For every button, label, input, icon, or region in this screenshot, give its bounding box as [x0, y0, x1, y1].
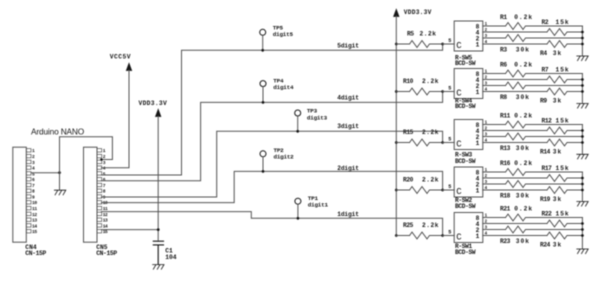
power symbol VDD3.3V (left) [155, 108, 161, 117]
svg-text:15: 15 [32, 229, 37, 235]
svg-text:BCD-SW: BCD-SW [455, 249, 476, 256]
resistor R21 0.2k [483, 214, 583, 221]
svg-text:2.2k: 2.2k [420, 30, 437, 37]
wire GND bus (block 1) [581, 26, 583, 56]
svg-text:30k: 30k [516, 46, 530, 53]
svg-text:30k: 30k [516, 94, 530, 101]
resistor R6 0.2k [483, 70, 583, 77]
output pin numbers (R-SW5) [485, 23, 488, 45]
svg-text:R1: R1 [500, 14, 507, 21]
op-amp-style IC R-SW3 BCD-SW [454, 120, 483, 150]
output pin numbers (R-SW1) [485, 214, 488, 236]
wire GND bus (block 4) [581, 172, 583, 202]
resistor R8 30k [483, 82, 583, 89]
svg-text:1: 1 [476, 233, 480, 240]
svg-text:R10: R10 [403, 78, 414, 85]
svg-text:R7: R7 [542, 66, 549, 73]
junction VDD3.3V / R10 [395, 90, 398, 93]
resistor R10 2.2k [396, 88, 442, 95]
junction GND bus r2 (block 5) [581, 222, 584, 225]
svg-text:1digit: 1digit [337, 211, 359, 218]
svg-text:14: 14 [103, 223, 108, 229]
svg-text:digit1: digit1 [308, 201, 329, 208]
svg-text:R11: R11 [500, 113, 511, 120]
svg-text:R19: R19 [540, 196, 551, 203]
svg-text:3k: 3k [553, 196, 562, 203]
svg-text:BCD-SW: BCD-SW [455, 103, 476, 110]
test point TP5 [260, 29, 266, 50]
output pin numbers (R-SW4) [485, 70, 488, 92]
svg-text:digit4: digit4 [273, 84, 294, 91]
junction GND bus r3 (block 3) [581, 135, 584, 138]
test point TP4 [260, 81, 266, 103]
ground chassis (block 1) [577, 56, 588, 61]
resistor R23 30k [483, 226, 583, 233]
ground chassis (CN4) [54, 190, 65, 195]
junction TP3 on net [296, 130, 299, 133]
svg-text:15k: 15k [556, 117, 570, 124]
resistor R2 15k [483, 29, 583, 36]
svg-text:12: 12 [32, 212, 37, 218]
junction GND bus r2 (block 2) [581, 78, 584, 81]
svg-text:R24: R24 [540, 242, 551, 249]
op-amp-style IC R-SW2 BCD-SW [454, 167, 483, 197]
svg-text:12: 12 [103, 212, 108, 218]
svg-text:1: 1 [476, 140, 480, 147]
junction R25 / digit net / pin 5 [441, 234, 444, 237]
svg-text:VDD3.3V: VDD3.3V [139, 100, 168, 107]
pin value labels 8 4 2 1 (R-SW2) [476, 169, 480, 194]
junction TP4 on net [262, 101, 265, 104]
output pin numbers (R-SW3) [485, 121, 488, 143]
svg-text:BCD-SW: BCD-SW [455, 203, 476, 210]
svg-text:R3: R3 [500, 46, 507, 53]
resistor R25 2.2k [396, 232, 442, 239]
wire to R-SW3 pin 5 [443, 142, 455, 144]
wire to R-SW1 pin 5 [443, 235, 455, 237]
svg-text:R8: R8 [500, 94, 507, 101]
svg-text:C: C [456, 139, 462, 149]
svg-text:0.2k: 0.2k [514, 14, 533, 21]
svg-text:3k: 3k [553, 149, 562, 156]
svg-text:0.2k: 0.2k [514, 62, 533, 69]
resistor R16 0.2k [483, 169, 583, 176]
wire net 2digit (CN5 pin10 to R-SW2) [101, 171, 442, 202]
svg-text:3k: 3k [553, 242, 562, 249]
svg-text:10: 10 [103, 200, 108, 206]
junction TP5 on net [261, 49, 264, 52]
svg-text:5digit: 5digit [337, 43, 359, 50]
pin value labels 8 4 2 1 (R-SW3) [476, 122, 480, 147]
resistor R11 0.2k [483, 121, 583, 128]
junction GND bus r4 (block 2) [581, 90, 584, 93]
wire CN4 pin5 to junction [31, 172, 59, 174]
wire CN5 pin15 to VDD3.3V [101, 229, 158, 231]
svg-text:13: 13 [32, 218, 37, 224]
junction VDD3.3V / R15 [395, 141, 398, 144]
svg-text:15k: 15k [556, 66, 570, 73]
resistor R3 30k [483, 35, 583, 42]
svg-text:30k: 30k [516, 238, 530, 245]
junction R5 / digit net / pin 5 [441, 43, 444, 46]
svg-text:5: 5 [448, 38, 451, 44]
test point TP1 [295, 198, 301, 218]
connector CN5 [84, 147, 109, 242]
ground chassis (C1) [153, 265, 164, 270]
svg-text:digit2: digit2 [274, 153, 295, 160]
svg-text:1: 1 [476, 89, 480, 96]
svg-text:0.2k: 0.2k [514, 160, 533, 167]
svg-text:R6: R6 [500, 62, 507, 69]
junction GND bus r2 (block 4) [581, 177, 584, 180]
resistor R4 3k [483, 41, 583, 48]
svg-text:R20: R20 [403, 176, 414, 183]
svg-text:R13: R13 [500, 145, 511, 152]
wire GND bus (block 3) [581, 125, 583, 155]
svg-text:0.2k: 0.2k [514, 206, 533, 213]
svg-text:30k: 30k [516, 192, 530, 199]
svg-text:11: 11 [32, 206, 37, 212]
wire GND bus (block 2) [581, 74, 583, 104]
op-amp-style IC R-SW5 BCD-SW [454, 21, 483, 51]
svg-text:5: 5 [448, 229, 451, 235]
ground chassis (block 5) [577, 249, 588, 254]
junction GND bus r4 (block 4) [581, 189, 584, 192]
svg-text:R21: R21 [500, 206, 511, 213]
output pin numbers (R-SW2) [485, 169, 488, 191]
svg-text:CN-15P: CN-15P [96, 250, 117, 257]
svg-text:VCC5V: VCC5V [110, 53, 131, 60]
svg-text:15k: 15k [556, 210, 570, 217]
svg-text:R12: R12 [542, 117, 553, 124]
wire VDD3.3V down to C1 [157, 117, 159, 242]
ground chassis (block 4) [577, 202, 588, 207]
junction GND bus r2 (block 3) [581, 129, 584, 132]
power symbol VCC5V [126, 62, 132, 71]
junction GND bus r4 (block 5) [581, 234, 584, 237]
svg-text:digit3: digit3 [307, 115, 328, 122]
test point TP3 [295, 110, 301, 131]
svg-text:5: 5 [448, 184, 451, 190]
junction CN4 pin5 / GND / loop [58, 171, 61, 174]
junction GND bus r2 (block 1) [581, 31, 584, 34]
svg-text:13: 13 [103, 218, 108, 224]
resistor R13 30k [483, 133, 583, 140]
svg-text:1: 1 [476, 41, 480, 48]
junction GND bus r3 (block 1) [581, 37, 584, 40]
wire net 5digit (CN5 pin5 to R-SW5) [101, 44, 442, 175]
svg-text:10: 10 [32, 200, 37, 206]
wire net 1digit (CN5 pin12 to R-SW1) [101, 212, 442, 236]
svg-text:R23: R23 [500, 238, 511, 245]
wire to R-SW2 pin 5 [443, 189, 455, 191]
svg-text:BCD-SW: BCD-SW [455, 60, 476, 67]
svg-text:R5: R5 [407, 30, 414, 37]
svg-text:3k: 3k [553, 98, 562, 105]
pin value labels 8 4 2 1 (R-SW5) [476, 23, 480, 48]
resistor R9 3k [483, 88, 583, 95]
wire GND bus (block 5) [581, 218, 583, 250]
svg-text:CN-15P: CN-15P [25, 250, 46, 257]
wire junction down to chassis [59, 173, 61, 190]
pin value labels 8 4 2 1 (R-SW4) [476, 71, 480, 96]
svg-text:C: C [456, 187, 462, 197]
svg-text:R9: R9 [540, 98, 547, 105]
svg-text:Arduino NANO: Arduino NANO [31, 127, 85, 137]
svg-text:BCD-SW: BCD-SW [455, 158, 476, 165]
svg-text:5: 5 [448, 136, 451, 142]
resistor R18 30k [483, 181, 583, 188]
junction GND bus r4 (block 3) [581, 141, 584, 144]
svg-text:15k: 15k [556, 19, 570, 26]
svg-text:2.2k: 2.2k [422, 222, 439, 229]
svg-text:3digit: 3digit [337, 123, 359, 130]
resistor R20 2.2k [396, 187, 442, 194]
resistor R15 2.2k [396, 139, 442, 146]
junction VDD3.3V / R25 [395, 234, 398, 237]
capacitor C1 [153, 241, 163, 264]
junction TP1 on net [297, 217, 300, 220]
svg-text:104: 104 [165, 254, 177, 261]
wire to R-SW4 pin 5 [443, 91, 455, 93]
resistor R7 15k [483, 76, 583, 83]
junction R15 / digit net / pin 5 [441, 141, 444, 144]
resistor R17 15k [483, 175, 583, 182]
junction GND bus r4 (block 1) [581, 43, 584, 46]
svg-text:15k: 15k [556, 165, 570, 172]
svg-text:R4: R4 [540, 50, 547, 57]
junction VDD3.3V / R20 [395, 189, 398, 192]
junction TP2 on net [262, 170, 265, 173]
svg-text:1: 1 [476, 187, 480, 194]
junction GND bus r3 (block 5) [581, 228, 584, 231]
svg-text:R15: R15 [403, 129, 414, 136]
svg-text:0.2k: 0.2k [514, 113, 533, 120]
resistor R5 2.2k [396, 41, 442, 48]
svg-text:14: 14 [32, 223, 37, 229]
junction VDD3.3V / CN5 pin15 [157, 228, 160, 231]
wire VDD3.3V pullup bus [395, 16, 397, 235]
pin value labels 8 4 2 1 (R-SW1) [476, 215, 480, 240]
junction VDD3.3V / R5 [395, 43, 398, 46]
svg-text:2.2k: 2.2k [422, 78, 439, 85]
svg-text:C: C [456, 232, 462, 242]
svg-text:R22: R22 [542, 210, 553, 217]
wire to R-SW5 pin 5 [443, 43, 455, 45]
connector CN4 [13, 147, 38, 242]
svg-text:R16: R16 [500, 160, 511, 167]
junction GND bus r3 (block 4) [581, 183, 584, 186]
wire net 4digit (CN5 pin6 to R-SW4) [101, 92, 442, 181]
op-amp-style IC R-SW4 BCD-SW [454, 69, 483, 99]
svg-text:2.2k: 2.2k [422, 129, 439, 136]
svg-text:VDD3.3V: VDD3.3V [404, 9, 432, 16]
junction R20 / digit net / pin 5 [441, 189, 444, 192]
ground chassis (block 2) [577, 104, 588, 109]
svg-text:R17: R17 [542, 165, 553, 172]
op-amp-style IC R-SW1 BCD-SW [454, 213, 483, 243]
resistor R22 15k [483, 220, 583, 227]
svg-text:TP3: TP3 [307, 108, 318, 115]
svg-text:2.2k: 2.2k [422, 176, 439, 183]
svg-text:4digit: 4digit [337, 94, 359, 101]
power symbol VDD3.3V (right) [393, 8, 399, 17]
resistor R12 15k [483, 127, 583, 134]
wire net 3digit (CN5 pin9 to R-SW3) [101, 131, 442, 197]
svg-text:C: C [456, 41, 462, 51]
junction GND bus r3 (block 2) [581, 84, 584, 87]
svg-text:digit5: digit5 [273, 31, 294, 38]
test point TP2 [260, 151, 266, 172]
resistor R1 0.2k [483, 23, 583, 30]
svg-text:R14: R14 [540, 149, 551, 156]
svg-text:R2: R2 [542, 19, 549, 26]
resistor R24 3k [483, 232, 583, 239]
svg-text:3k: 3k [553, 50, 562, 57]
svg-text:5: 5 [448, 85, 451, 91]
svg-text:30k: 30k [516, 145, 530, 152]
junction at CN5 pin2 [100, 158, 103, 161]
junction R10 / digit net / pin 5 [441, 90, 444, 93]
wire VCC5V to CN5 pin4 [101, 71, 129, 168]
wire GND loop CN4 to CN5 pin2 [60, 137, 113, 173]
resistor R19 3k [483, 187, 583, 194]
svg-text:R18: R18 [500, 192, 511, 199]
ground chassis (block 3) [577, 154, 588, 159]
svg-text:2digit: 2digit [337, 165, 359, 172]
svg-text:R25: R25 [403, 222, 414, 229]
resistor R14 3k [483, 139, 583, 146]
